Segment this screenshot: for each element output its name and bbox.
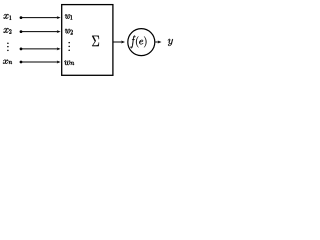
weight w1 label: [65, 14, 70, 18]
output y label: [168, 39, 173, 46]
wire input 3: [20, 47, 61, 50]
sigma summation symbol: [92, 36, 99, 46]
weight wn label: [64, 61, 70, 65]
summation box: [62, 5, 113, 76]
activation f(e) label: [131, 36, 136, 49]
node x1 label: [3, 14, 8, 18]
perceptron diagram: [0, 0, 180, 81]
weight w2 label: [65, 29, 70, 33]
activation circle: [128, 29, 155, 56]
wire box to activation: [113, 41, 125, 44]
wire input 1: [20, 16, 61, 19]
wire input n: [20, 61, 61, 64]
wire input 2: [20, 30, 61, 33]
weight ellipsis: [68, 42, 70, 51]
wire activation to output: [155, 41, 161, 44]
input ellipsis: [7, 42, 8, 51]
node xn label: [3, 60, 8, 64]
node x2 label: [3, 28, 8, 33]
